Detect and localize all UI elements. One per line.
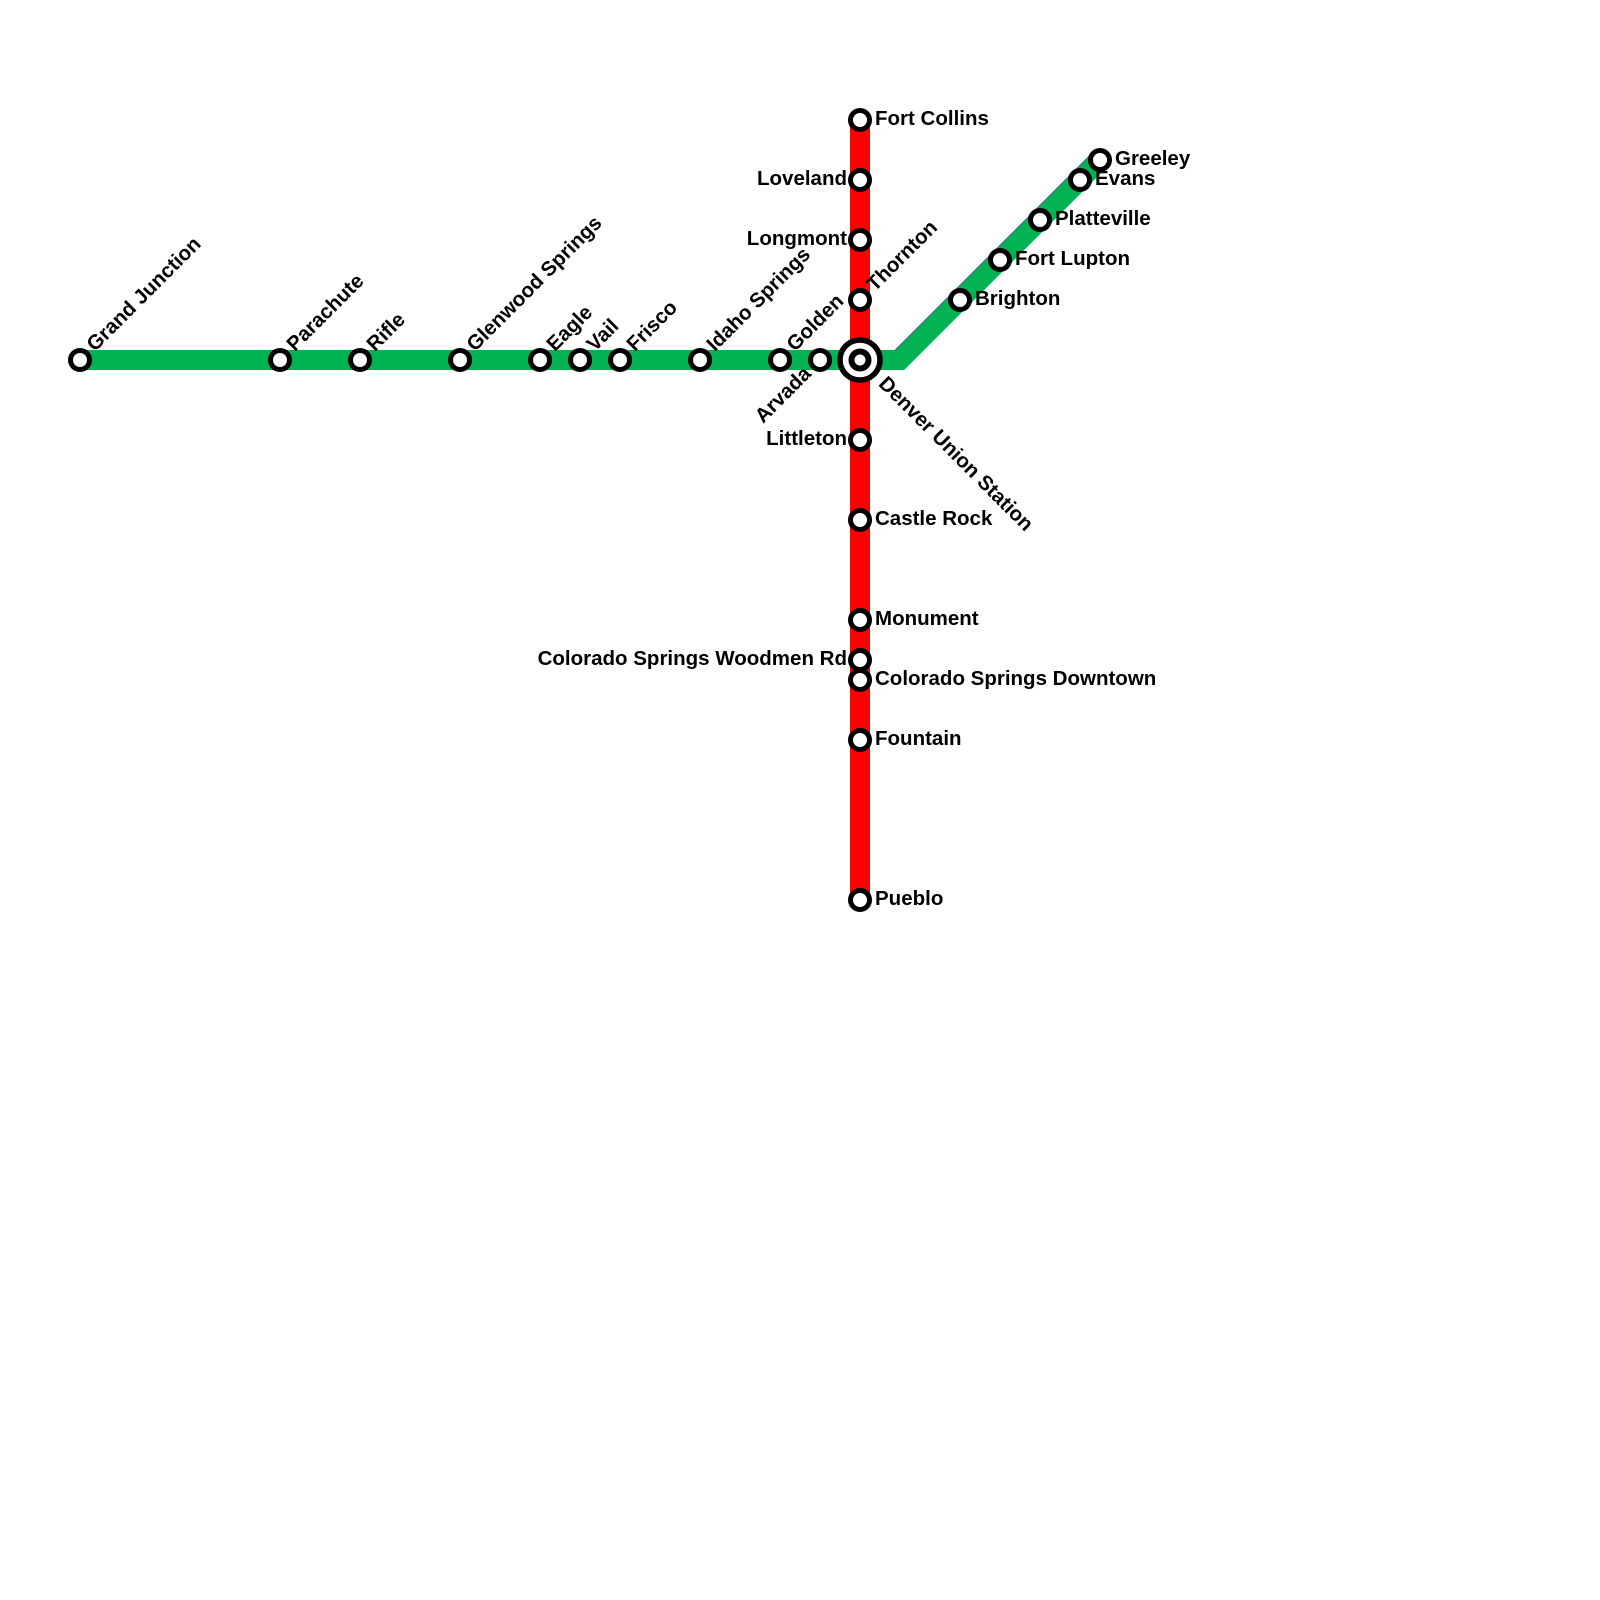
svg-text:Loveland: Loveland <box>757 167 847 190</box>
station Parachute <box>271 351 290 370</box>
station Idaho Springs <box>691 351 710 370</box>
svg-text:Greeley: Greeley <box>1115 147 1191 170</box>
station Frisco <box>611 351 630 370</box>
station Arvada <box>811 351 830 370</box>
blue underlay edge artifact along diagonal <box>900 160 1100 360</box>
green line Grand Junction to Greeley <box>80 160 1100 360</box>
svg-text:Fort Collins: Fort Collins <box>875 107 989 130</box>
station Thornton <box>851 291 870 310</box>
station Grand Junction <box>71 351 90 370</box>
station Fort Collins <box>851 111 870 130</box>
station Monument <box>851 611 870 630</box>
station Brighton <box>951 291 970 310</box>
station Fort Lupton <box>991 251 1010 270</box>
station Colorado Springs Woodmen Rd <box>851 651 870 670</box>
station Golden <box>771 351 790 370</box>
svg-text:Colorado Springs Woodmen Rd: Colorado Springs Woodmen Rd <box>538 647 847 670</box>
svg-text:Fountain: Fountain <box>875 727 962 750</box>
station Greeley <box>1091 151 1110 170</box>
svg-text:Fort Lupton: Fort Lupton <box>1015 247 1130 270</box>
svg-text:Littleton: Littleton <box>766 427 847 450</box>
station Littleton <box>851 431 870 450</box>
station Rifle <box>351 351 370 370</box>
station Longmont <box>851 231 870 250</box>
station Eagle <box>531 351 550 370</box>
svg-text:Castle Rock: Castle Rock <box>875 507 993 530</box>
station Evans <box>1071 171 1090 190</box>
station Colorado Springs Downtown <box>851 671 870 690</box>
station Glenwood Springs <box>451 351 470 370</box>
svg-text:Evans: Evans <box>1095 167 1155 190</box>
svg-text:Brighton: Brighton <box>975 287 1060 310</box>
svg-text:Platteville: Platteville <box>1055 207 1151 230</box>
interchange Denver Union Station <box>840 340 880 380</box>
station Fountain <box>851 731 870 750</box>
red line Fort Collins to Pueblo <box>850 120 870 900</box>
svg-text:Monument: Monument <box>875 607 979 630</box>
svg-text:Colorado Springs Downtown: Colorado Springs Downtown <box>875 667 1156 690</box>
station Vail <box>571 351 590 370</box>
station Castle Rock <box>851 511 870 530</box>
station Platteville <box>1031 211 1050 230</box>
station Pueblo <box>851 891 870 910</box>
station Loveland <box>851 171 870 190</box>
svg-text:Pueblo: Pueblo <box>875 887 943 910</box>
